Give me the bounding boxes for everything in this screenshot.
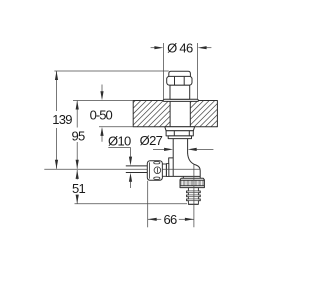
body front ring — [167, 164, 169, 177]
pipe through wall — [169, 101, 171, 127]
svg-text:Ø27: Ø27 — [140, 133, 163, 148]
svg-text:Ø 46: Ø 46 — [167, 41, 193, 56]
dim 51 line — [76, 170, 78, 180]
dim 0-50 bottom extension line — [99, 126, 133, 128]
hose nipple — [187, 188, 201, 205]
flange on wall — [163, 99, 198, 101]
knob center circle — [154, 167, 161, 174]
dim D46 extension lines — [162, 43, 164, 100]
dim D46 arrows — [151, 47, 156, 49]
dim 139 line — [56, 71, 58, 111]
knob top groove — [154, 162, 160, 164]
svg-text:139: 139 — [52, 112, 72, 127]
svg-text:51: 51 — [72, 181, 86, 196]
dim 95 top extension line — [73, 100, 133, 102]
horizontal centerline — [44, 168, 147, 170]
body elbow outline — [169, 153, 201, 178]
outlet vertical centerline — [193, 165, 195, 228]
dim 66 left extension line — [147, 181, 149, 228]
dim 66 line — [148, 218, 162, 220]
wall hatching left — [133, 101, 170, 127]
svg-text:0-50: 0-50 — [90, 107, 113, 122]
wall hatching right — [190, 101, 217, 127]
dim 95 line — [76, 101, 78, 128]
svg-text:66: 66 — [163, 212, 177, 227]
nipple ring lines — [187, 190, 201, 192]
knurled collar — [180, 178, 204, 187]
locknut hex band — [166, 131, 193, 136]
svg-text:95: 95 — [71, 128, 85, 143]
dim D27 arrows — [153, 148, 165, 150]
knob bottom groove — [154, 177, 160, 179]
cap dome — [169, 71, 191, 80]
stem lines — [126, 165, 148, 167]
locknut lower ring — [168, 136, 191, 139]
locknut collar — [165, 127, 195, 131]
hex nut — [167, 76, 192, 85]
inlet pipe — [172, 139, 174, 177]
knob neck — [162, 164, 166, 176]
wall outline — [133, 101, 217, 127]
dim 51 bottom extension line — [75, 203, 188, 205]
knob slot — [156, 168, 158, 173]
dim D10 leader — [108, 148, 130, 158]
svg-text:Ø10: Ø10 — [108, 133, 131, 148]
dim 0-50 arrows — [101, 85, 103, 93]
knurl band — [181, 180, 204, 185]
cylinder above flange — [170, 85, 190, 99]
dim 139 top extension line — [54, 70, 168, 72]
knob handle — [147, 161, 162, 181]
knob face line — [149, 162, 151, 178]
nut facets — [174, 77, 176, 85]
